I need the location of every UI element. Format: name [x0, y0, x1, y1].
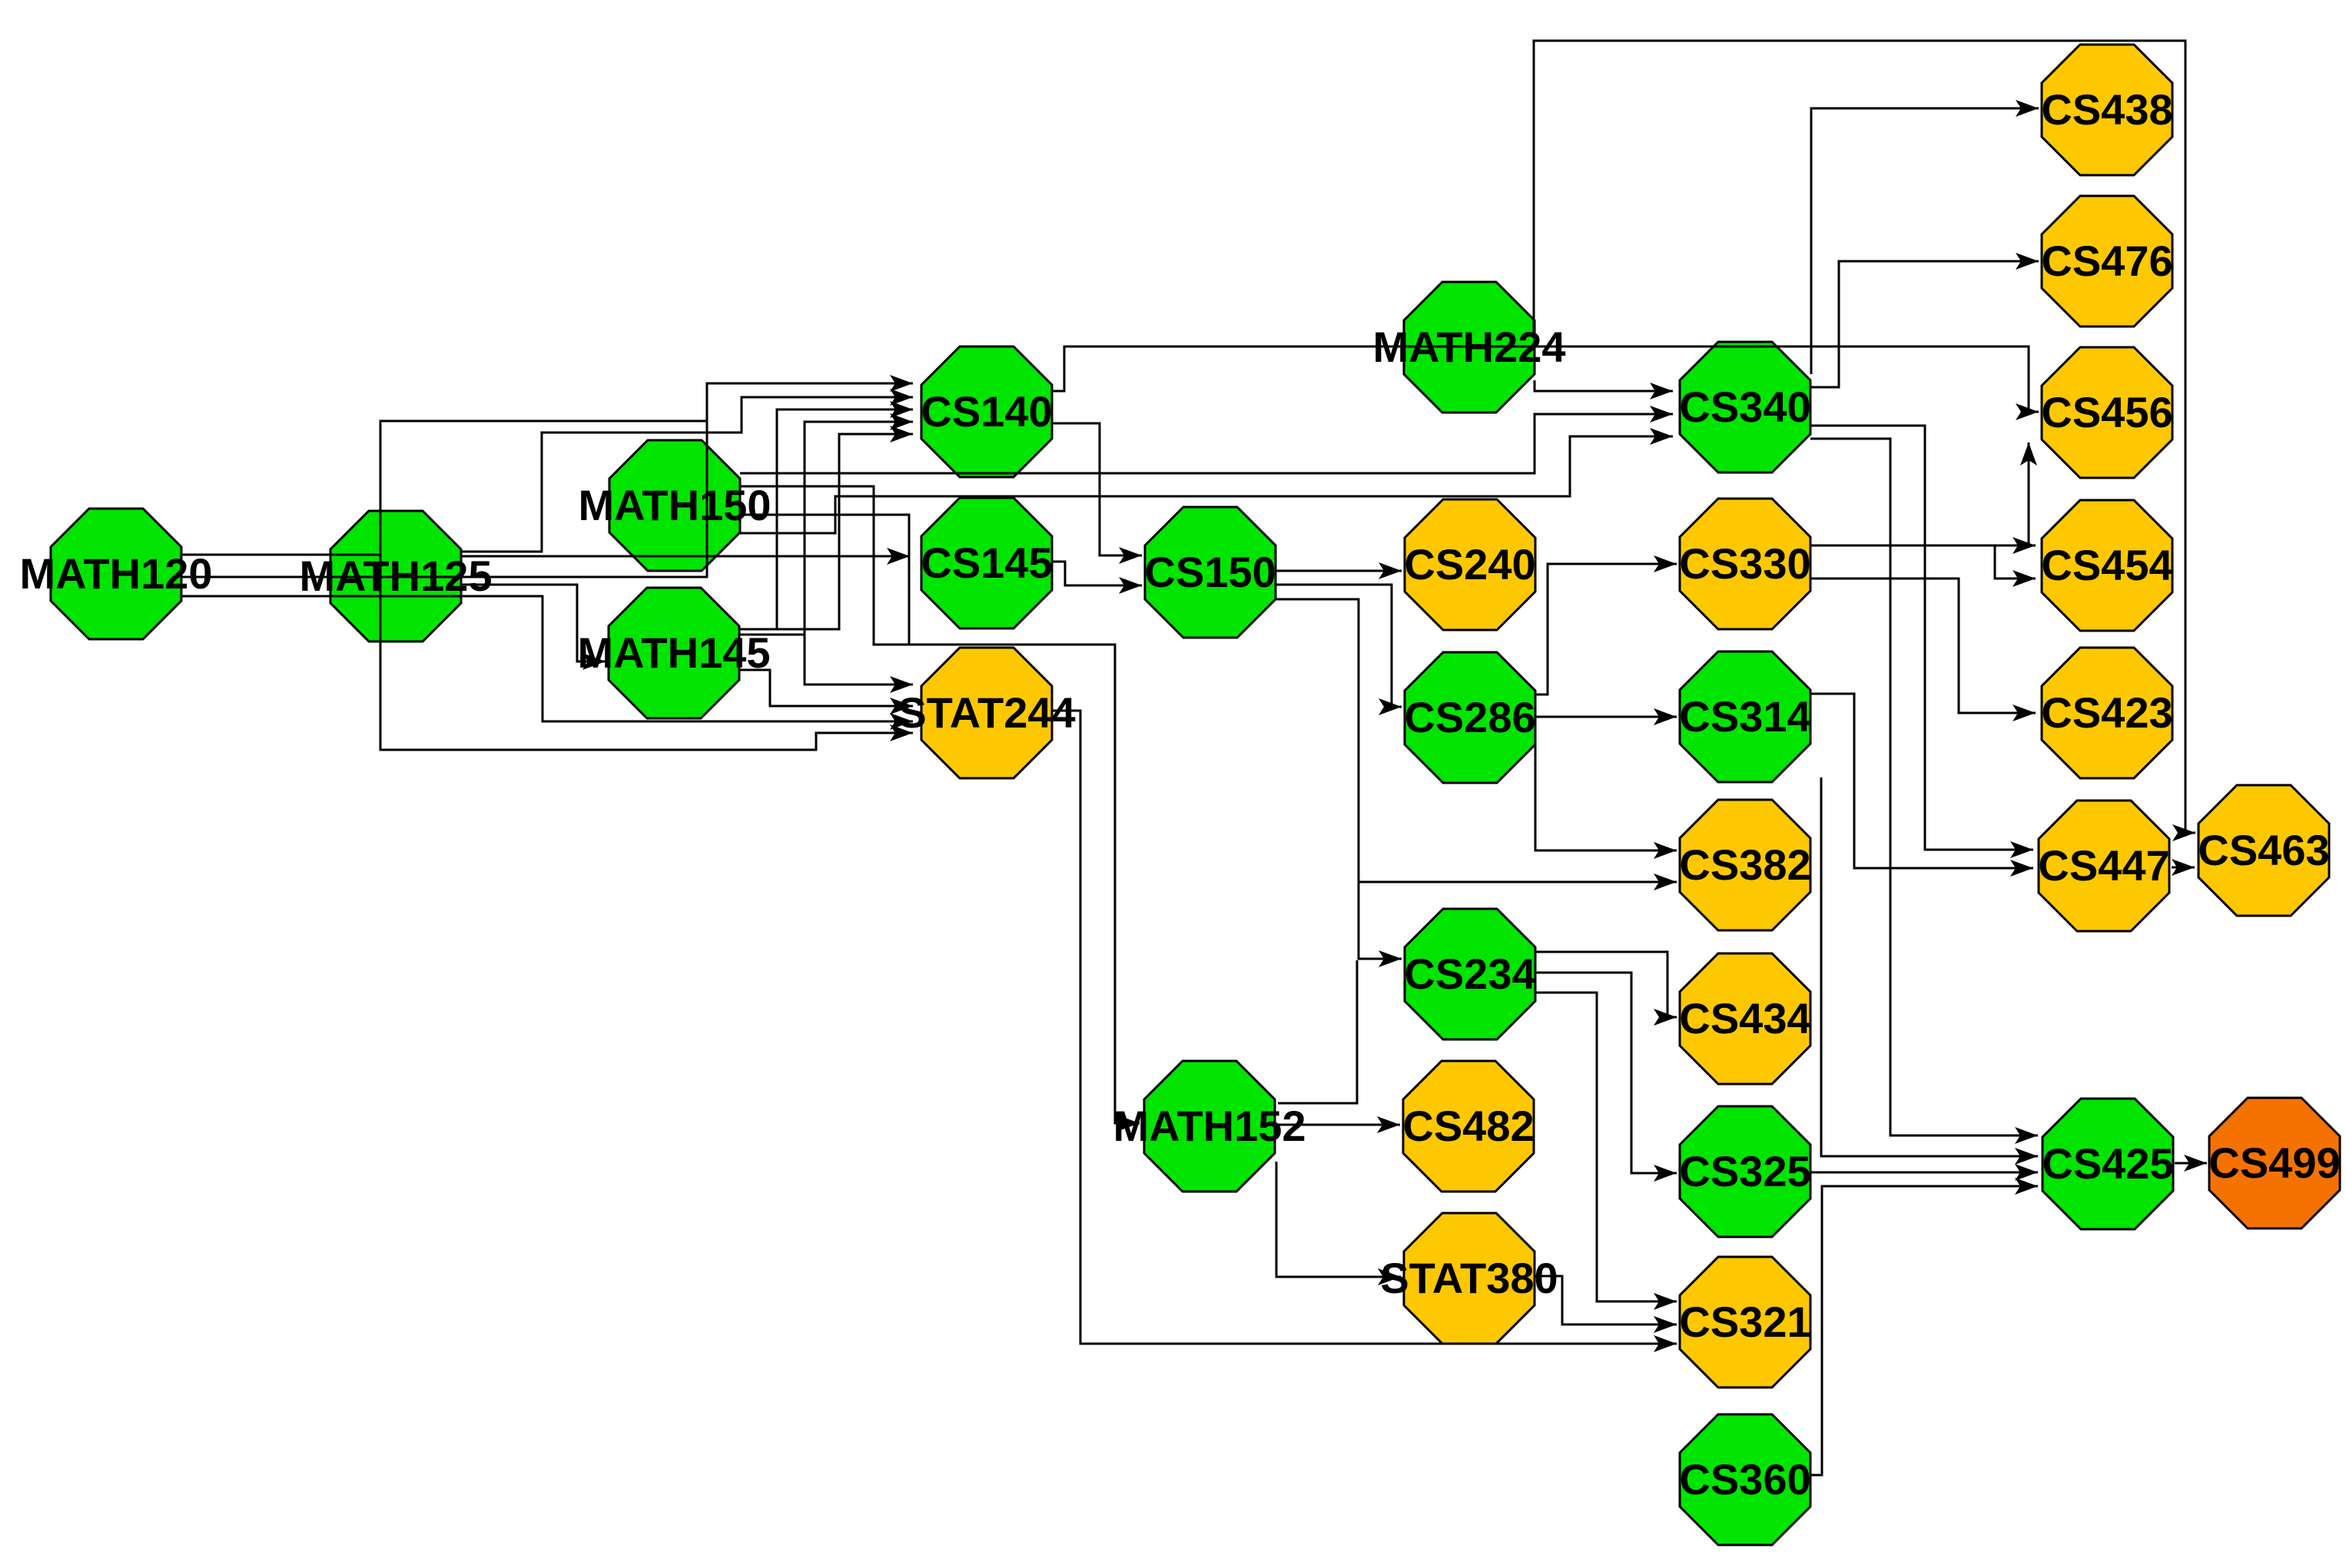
label MATH224: [1372, 323, 1565, 371]
label MATH145: [577, 628, 770, 677]
edge CS330-CS456: [2020, 443, 2037, 545]
edge CS145-CS150: [1052, 562, 1142, 594]
edge CS150-CS234: [1276, 599, 1402, 967]
edge MATH145-CS140 a: [739, 401, 913, 629]
edge CS325-CS425: [1810, 1164, 2038, 1181]
svg-text:STAT380: STAT380: [1380, 1254, 1558, 1302]
edge CS330-CS423: [1810, 578, 2036, 721]
node CS234 octagon: [1405, 909, 1535, 1039]
svg-text:STAT244: STAT244: [898, 688, 1075, 737]
label CS340: [1679, 383, 1810, 431]
edge CS425-CS499: [2175, 1155, 2207, 1172]
edge MATH125-MATH145: [461, 585, 606, 670]
svg-text:CS360: CS360: [1679, 1455, 1810, 1503]
edge CS140-CS456: [1052, 346, 2039, 420]
edge CS330-CS454 a: [1810, 537, 2036, 554]
label STAT380: [1380, 1254, 1558, 1302]
edge MATH125-CS140 b: [461, 389, 913, 552]
node CS321 octagon: [1680, 1257, 1810, 1387]
edge CS234-CS321: [1535, 993, 1677, 1310]
edge CS447-CS463: [2172, 859, 2195, 876]
svg-text:CS314: CS314: [1679, 692, 1810, 741]
edge CS150-CS240: [1276, 562, 1402, 579]
label MATH150: [578, 481, 771, 529]
edge MATH125-CS145: [461, 548, 910, 565]
node CS463 octagon: [2198, 785, 2329, 916]
svg-text:MATH150: MATH150: [578, 481, 771, 529]
svg-text:CS286: CS286: [1404, 693, 1535, 741]
label CS330: [1679, 539, 1810, 588]
node CS140 octagon: [921, 346, 1052, 477]
node CS423 octagon: [2042, 648, 2172, 778]
label CS234: [1404, 950, 1535, 998]
node MATH125 octagon: [330, 511, 461, 641]
label CS463: [2198, 826, 2329, 874]
label MATH120: [19, 549, 212, 598]
svg-text:CS140: CS140: [921, 387, 1052, 436]
node CS330 octagon: [1680, 499, 1810, 629]
node STAT244 octagon: [921, 648, 1052, 778]
edge CS286-CS314: [1535, 708, 1677, 725]
node MATH152 octagon: [1144, 1061, 1275, 1192]
edge STAT380-CS321: [1535, 1276, 1677, 1333]
svg-text:CS382: CS382: [1679, 840, 1810, 889]
edge CS234-CS325: [1535, 973, 1677, 1182]
svg-text:CS234: CS234: [1404, 950, 1535, 998]
node CS340 octagon: [1680, 342, 1810, 472]
edge MATH120-CS140: [181, 375, 913, 577]
label MATH125: [299, 552, 492, 600]
svg-text:CS321: CS321: [1679, 1298, 1810, 1346]
node CS482 octagon: [1403, 1061, 1534, 1192]
label CS423: [2041, 688, 2172, 737]
edge MATH145-STAT244 b: [739, 670, 913, 714]
node CS456 octagon: [2042, 347, 2172, 478]
node MATH145 octagon: [609, 588, 739, 718]
node MATH150 octagon: [609, 440, 740, 571]
node CS476 octagon: [2042, 196, 2172, 327]
edge STAT244-CS321: [1051, 711, 1677, 1352]
label CS425: [2042, 1139, 2173, 1188]
label CS382: [1679, 840, 1810, 889]
edge CS340-CS447: [1810, 426, 2033, 858]
label CS150: [1144, 548, 1276, 596]
svg-text:CS425: CS425: [2042, 1139, 2173, 1188]
edge CS314-CS447: [1810, 694, 2033, 877]
node CS360 octagon: [1680, 1414, 1810, 1545]
edge MATH150-MATH152: [740, 486, 1140, 1132]
edge MATH145-STAT244 a: [805, 635, 913, 693]
node MATH224 octagon: [1404, 282, 1535, 413]
label CS434: [1679, 994, 1810, 1043]
svg-text:CS240: CS240: [1404, 540, 1535, 588]
node MATH120 octagon: [51, 509, 181, 639]
label CS499: [2208, 1139, 2340, 1187]
edge MATH152-CS234: [1278, 960, 1357, 1103]
edge MATH125-CS140 top: [380, 421, 707, 641]
label CS314: [1679, 692, 1810, 741]
edge CS150-CS382: [1359, 874, 1677, 890]
edge MATH224-CS340: [1535, 380, 1673, 399]
edge CS340-CS438: [1811, 100, 2039, 374]
node CS454 octagon: [2042, 500, 2172, 631]
label CS240: [1404, 540, 1535, 588]
label CS482: [1402, 1102, 1534, 1150]
svg-text:CS340: CS340: [1679, 383, 1810, 431]
edge CS150-CS286: [1276, 585, 1402, 715]
edge MATH125-STAT244: [380, 641, 913, 750]
edge MATH150-CS340 b: [740, 428, 1673, 533]
label CS145: [921, 539, 1052, 587]
svg-text:CS447: CS447: [2038, 841, 2169, 890]
edge CS330-CS454 b: [1995, 545, 2036, 587]
edge CS140-CS150: [1052, 423, 1142, 564]
node CS434 octagon: [1680, 953, 1810, 1084]
svg-text:CS454: CS454: [2041, 541, 2172, 589]
svg-text:MATH152: MATH152: [1113, 1102, 1306, 1150]
label CS438: [2041, 85, 2172, 134]
node CS240 octagon: [1405, 499, 1535, 630]
svg-text:CS476: CS476: [2041, 237, 2172, 285]
node CS438 octagon: [2042, 45, 2172, 175]
svg-text:CS482: CS482: [1402, 1102, 1534, 1150]
node CS286 octagon: [1405, 652, 1535, 783]
node CS382 octagon: [1680, 800, 1810, 930]
label CS321: [1679, 1298, 1810, 1346]
edge MATH145-CS140 b: [739, 413, 913, 635]
label CS325: [1679, 1147, 1810, 1195]
edge CS340-CS425: [1810, 439, 2038, 1144]
edge CS314-CS425: [1821, 777, 2038, 1165]
edge MATH152-CS482: [1275, 1116, 1400, 1133]
node CS499 octagon: [2209, 1098, 2340, 1228]
edge CS360-CS425: [1811, 1178, 2038, 1475]
edge MATH150-STAT244: [740, 515, 909, 645]
svg-text:CS434: CS434: [1679, 994, 1810, 1043]
edge MATH120-STAT244: [181, 596, 913, 730]
edge MATH145-CS140 c: [777, 426, 913, 629]
svg-text:CS456: CS456: [2041, 388, 2172, 436]
edge CS286-CS330: [1535, 555, 1677, 694]
svg-text:CS145: CS145: [921, 539, 1052, 587]
edge MATH152-STAT380: [1276, 1162, 1401, 1285]
label CS140: [921, 387, 1052, 436]
node CS145 octagon: [921, 498, 1052, 628]
svg-text:CS463: CS463: [2198, 826, 2329, 874]
edge CS340-CS476: [1810, 253, 2039, 387]
label CS360: [1679, 1455, 1810, 1503]
label CS456: [2041, 388, 2172, 436]
svg-text:MATH120: MATH120: [19, 549, 212, 598]
node CS425 octagon: [2042, 1099, 2173, 1229]
svg-text:MATH224: MATH224: [1372, 323, 1565, 371]
label CS447: [2038, 841, 2169, 890]
label STAT244: [898, 688, 1075, 737]
edge MATH224-CS463: [1534, 41, 2195, 841]
svg-text:CS438: CS438: [2041, 85, 2172, 134]
svg-text:CS150: CS150: [1144, 548, 1276, 596]
label CS476: [2041, 237, 2172, 285]
svg-text:MATH125: MATH125: [299, 552, 492, 600]
node CS325 octagon: [1680, 1106, 1810, 1237]
edge CS286-CS382: [1535, 741, 1677, 859]
label CS454: [2041, 541, 2172, 589]
svg-text:CS325: CS325: [1679, 1147, 1810, 1195]
svg-text:CS423: CS423: [2041, 688, 2172, 737]
edge MATH150-CS340 a: [740, 406, 1673, 473]
edge CS234-CS434: [1535, 952, 1677, 1026]
node CS447 octagon: [2039, 801, 2169, 931]
label MATH152: [1113, 1102, 1306, 1150]
svg-text:CS499: CS499: [2208, 1139, 2340, 1187]
edge MATH120-MATH125: [181, 554, 380, 556]
node STAT380 octagon: [1404, 1213, 1535, 1344]
svg-text:CS330: CS330: [1679, 539, 1810, 588]
svg-text:MATH145: MATH145: [577, 628, 770, 677]
label CS286: [1404, 693, 1535, 741]
node CS150 octagon: [1145, 507, 1276, 638]
node CS314 octagon: [1680, 651, 1810, 782]
